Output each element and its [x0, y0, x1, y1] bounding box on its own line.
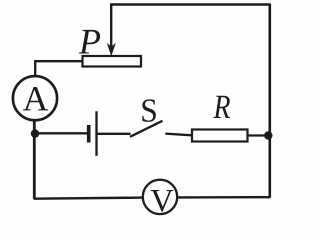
wire: ammeter top lead up and right to rheostat [35, 61, 83, 77]
label S [142, 99, 155, 122]
ammeter A [13, 76, 57, 120]
wire: left vertical rail from node down to bottom [33, 121, 36, 199]
label R [213, 96, 230, 118]
wire: switch to resistor [165, 134, 192, 136]
node: left junction [31, 129, 39, 137]
wire: right vertical rail [268, 4, 271, 198]
wire: battery to switch pivot [98, 133, 131, 135]
label P [79, 30, 100, 54]
wire: bottom left segment to voltmeter [34, 198, 144, 199]
wire: top horizontal from arrow riser to right rail [110, 3, 270, 6]
rheostat P box [83, 56, 142, 67]
wire: bottom right segment from voltmeter [177, 196, 271, 199]
battery cell: long thin plate [95, 111, 97, 156]
battery cell: short thick plate [87, 125, 91, 143]
wire: resistor to right node [248, 134, 271, 136]
switch S blade (open) [130, 121, 163, 137]
voltmeter V [143, 180, 177, 214]
resistor R box [192, 130, 248, 142]
node: right junction [264, 131, 272, 139]
wire: node to battery [35, 132, 87, 134]
rheostat slider arrow [110, 4, 112, 49]
